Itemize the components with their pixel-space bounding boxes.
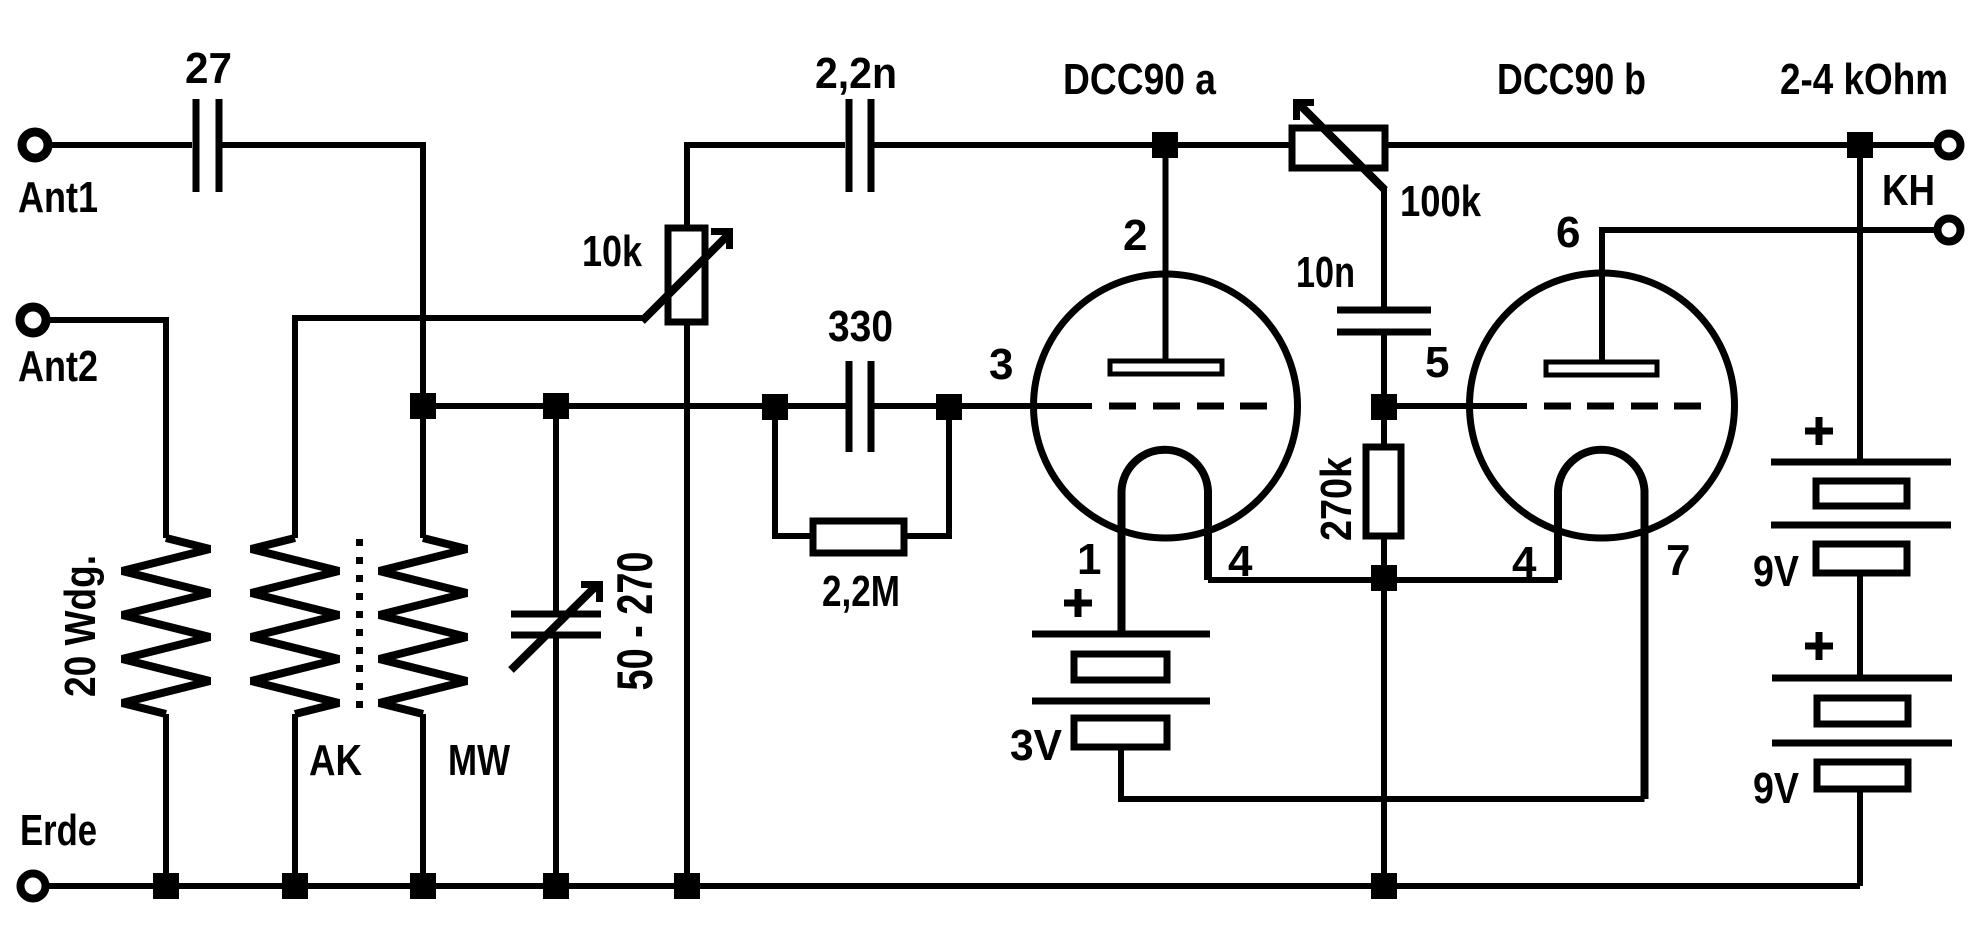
svg-text:2,2M: 2,2M [822, 567, 900, 616]
junction rail at 20Wdg [153, 873, 179, 899]
capacitor 2,2n [849, 99, 871, 192]
svg-text:MW: MW [448, 736, 510, 785]
svg-text:AK: AK [309, 736, 362, 785]
wire Ant1 to C 27 [51, 142, 192, 148]
terminal Ant2 [20, 307, 46, 333]
junction rail at 270k [1371, 873, 1397, 899]
junction top rail KH [1847, 132, 1873, 158]
cathode filament tube a [1122, 450, 1209, 634]
plus sign 9V lower [1805, 632, 1833, 660]
wire 10k bottom to ground rail [684, 322, 690, 886]
capacitor 330 [849, 361, 871, 452]
wire top rail 100k to KH1 [1385, 142, 1934, 148]
svg-text:DCC90 b: DCC90 b [1497, 55, 1646, 104]
svg-text:9V: 9V [1753, 547, 1800, 596]
resistor 270k [1381, 419, 1387, 447]
svg-text:Erde: Erde [20, 806, 97, 855]
svg-text:9V: 9V [1753, 764, 1800, 813]
resistor 2,2M bypass loop [775, 406, 813, 536]
plus sign 9V upper [1805, 417, 1833, 445]
junction bus at MW [410, 393, 436, 419]
ground rail wire [49, 883, 1860, 889]
svg-text:50 - 270: 50 - 270 [607, 552, 663, 691]
wire coil 20Wdg bottom to ground rail [163, 714, 169, 886]
junction bus at 50-270 [543, 393, 569, 419]
battery 3V [1032, 634, 1210, 747]
coil AK [251, 538, 339, 714]
svg-text:4: 4 [1512, 538, 1537, 587]
wire Ant2 to coil 20Wdg [49, 320, 166, 538]
svg-text:3: 3 [989, 340, 1013, 389]
junction node 5 [1371, 394, 1397, 420]
svg-text:27: 27 [185, 44, 232, 93]
potentiometer 10k [668, 228, 705, 322]
svg-text:5: 5 [1425, 338, 1449, 387]
terminal KH2 [1938, 219, 1961, 242]
coil 20 Wdg. [122, 538, 210, 714]
junction node 4 [1371, 565, 1397, 591]
anode plate tube a [1110, 361, 1222, 374]
svg-text:Ant1: Ant1 [18, 173, 98, 222]
grid tube a (dashed) [1033, 403, 1092, 409]
wire battery column top [1857, 145, 1863, 459]
terminal Erde [21, 874, 46, 899]
triode DCC90 b envelope [1470, 273, 1735, 538]
svg-text:1: 1 [1077, 535, 1101, 584]
svg-text:KH: KH [1882, 166, 1935, 215]
wire coil AK bottom to ground rail [292, 714, 298, 886]
wire C27 to MW coil column [222, 145, 423, 394]
anode wire tube b (pin 6) to KH2 [1602, 230, 1934, 362]
svg-text:3V: 3V [1010, 721, 1063, 770]
wire MW coil top to grid bus [420, 419, 426, 538]
terminal Ant1 [22, 132, 48, 158]
svg-text:270k: 270k [1312, 457, 1361, 541]
battery 9V upper [1771, 462, 1951, 573]
battery 9V lower [1772, 678, 1952, 789]
junction rail at 50-270 [543, 873, 569, 899]
wire node 4 to ground rail [1381, 591, 1387, 886]
svg-text:100k: 100k [1400, 177, 1481, 226]
arrow 50-270 [511, 584, 598, 670]
svg-text:2-4 kOhm: 2-4 kOhm [1780, 55, 1948, 104]
wire pin4a to pin4b [1208, 577, 1558, 583]
variable capacitor 50-270 [553, 406, 559, 611]
wire node 5 to tube b grid [1397, 403, 1470, 409]
plus sign 3V [1064, 589, 1092, 617]
wiper arrow 10k [642, 235, 728, 321]
svg-text:2: 2 [1123, 211, 1147, 260]
svg-text:2,2n: 2,2n [815, 49, 897, 98]
junction rail at AK [282, 873, 308, 899]
svg-text:DCC90 a: DCC90 a [1063, 55, 1216, 104]
junction bus at 2,2M right [936, 394, 962, 420]
svg-text:Ant2: Ant2 [18, 342, 98, 391]
wire C330 right to tube a grid [874, 403, 1033, 409]
junction rail at 10k [674, 873, 700, 899]
svg-text:6: 6 [1556, 208, 1580, 257]
grid bus wire [423, 403, 846, 409]
potentiometer 100k [1292, 128, 1385, 168]
svg-text:330: 330 [828, 302, 893, 351]
wire top rail C2,2n to 100k [874, 142, 1292, 148]
cathode filament tube b [1558, 450, 1645, 799]
wire 3V bottom to tube b pin 7 [1121, 747, 1645, 799]
svg-text:7: 7 [1666, 536, 1690, 585]
svg-text:10n: 10n [1296, 248, 1355, 297]
wire AK coil top to 10k wiper [295, 318, 645, 538]
capacitor 10n [1337, 310, 1431, 332]
wire 10n to node 5 [1381, 335, 1387, 395]
capacitor 27 [196, 99, 219, 192]
wire coil MW bottom to ground rail [420, 714, 426, 886]
core dotted line [356, 539, 363, 716]
wire between batteries [1857, 573, 1863, 675]
junction rail at MW [410, 873, 436, 899]
junction bus at 2,2M left [762, 394, 788, 420]
grid tube b (dashed) [1470, 403, 1527, 409]
svg-text:20 Wdg.: 20 Wdg. [56, 555, 105, 697]
junction top rail anode a [1152, 132, 1178, 158]
coil MW [379, 538, 467, 714]
wire battery bottom to ground rail [1857, 789, 1863, 886]
svg-text:10k: 10k [582, 227, 642, 276]
anode wire tube a (pin 2) [1163, 145, 1169, 361]
wire 10k top to top rail [687, 145, 845, 228]
triode DCC90 a envelope [1034, 274, 1298, 538]
anode plate tube b [1546, 362, 1657, 375]
wire 100k wiper to 10n [1381, 187, 1387, 307]
terminal KH1 [1938, 134, 1961, 157]
